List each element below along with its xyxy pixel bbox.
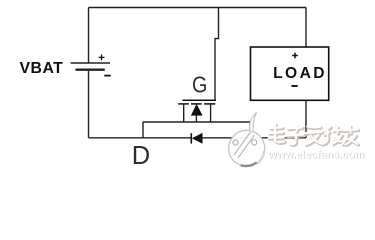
wire bottom rail left segment (battery - to diode anode junction) [89, 137, 192, 139]
svg-text:VBAT: VBAT [20, 60, 64, 77]
wire load top drop from top rail [305, 8, 307, 48]
transistor Q1 body arrow (pointing up to channel) [191, 104, 202, 115]
transistor Q1 channel dash left [178, 103, 189, 105]
label G (gate) [192, 71, 207, 98]
watermark logo stem [249, 113, 256, 132]
svg-text:LOAD: LOAD [273, 65, 327, 82]
wire battery - down to bottom rail [88, 71, 90, 138]
transistor Q1 gate bar [183, 99, 217, 101]
diode D1 cathode bar [190, 133, 192, 143]
watermark logo slash band [234, 132, 255, 158]
svg-text:G: G [192, 71, 207, 98]
label load + [292, 53, 298, 59]
watermark logo bottom shadow [242, 163, 256, 166]
watermark logo circle [229, 130, 265, 166]
svg-text:D: D [132, 142, 150, 170]
label battery + [99, 55, 105, 61]
load box [251, 47, 329, 100]
diode D1 arrow (pointing left) [192, 133, 202, 143]
transistor Q1 channel dash middle [191, 103, 202, 105]
battery VBAT long plate (+) [71, 62, 111, 64]
watermark logo dot right [252, 140, 257, 145]
label D (drain node) [132, 142, 150, 170]
wire source/drain rail of Q1 [143, 121, 250, 123]
watermark logo dot left [233, 140, 238, 145]
svg-text:www.elecfans.com: www.elecfans.com [267, 149, 364, 161]
wire bottom rail right segment (diode to load - drop) [202, 137, 306, 139]
wire right drop (Q1 drain to bottom rail) [249, 122, 251, 138]
watermark url www.elecfans.com [267, 149, 365, 162]
transistor Q1 source leg [183, 105, 185, 123]
label load - [292, 85, 298, 87]
transistor Q1 body leg [195, 115, 197, 122]
wire load - down to bottom rail [305, 100, 307, 138]
wire left drop (Q1 source to bottom rail) [142, 122, 144, 138]
label battery - [104, 75, 110, 77]
battery VBAT short plate (-) [76, 69, 105, 71]
transistor Q1 channel dash right [204, 103, 215, 105]
wire left drop from top rail to battery + plate [88, 8, 90, 63]
transistor Q1 drain leg [210, 105, 212, 123]
wire gate of Q1 up to top rail (with jog) [215, 8, 219, 101]
wire top rail (battery + to load +) [89, 7, 307, 9]
